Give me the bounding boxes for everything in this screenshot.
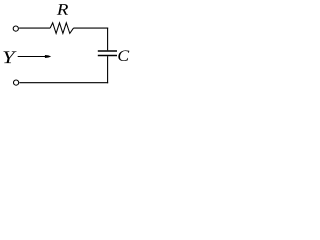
terminal bottom-left xyxy=(14,80,19,85)
terminal top-left xyxy=(13,26,18,31)
wire top-right segment xyxy=(74,27,109,29)
capacitor C1 top plate xyxy=(98,50,117,52)
wire top-left segment xyxy=(19,27,50,29)
resistor R1 zigzag xyxy=(50,23,73,34)
arrow Y head xyxy=(45,55,51,58)
label Y xyxy=(3,51,16,63)
capacitor C1 bottom plate xyxy=(98,55,117,57)
label C xyxy=(118,50,129,61)
label R xyxy=(57,4,68,15)
wire right vertical upper xyxy=(107,28,109,51)
wire right vertical lower xyxy=(107,56,109,83)
arrow Y direction line xyxy=(18,56,47,58)
wire bottom segment xyxy=(19,82,108,84)
